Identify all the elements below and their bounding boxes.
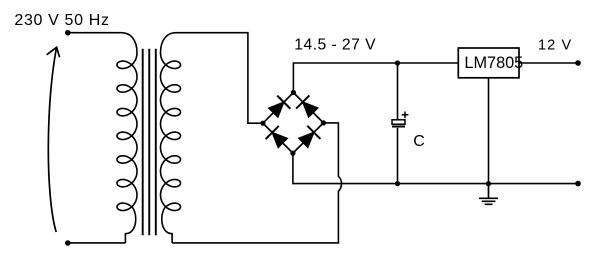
- wire: primary top from terminal to transformer: [67, 32, 122, 34]
- wire: capacitor negative lead: [397, 128, 399, 184]
- bridge rectifier edge: diode D4 branch (- bottom to AC right): [293, 123, 324, 153]
- bridge rectifier edge: diode D2 branch (AC right to + top): [293, 93, 323, 123]
- terminal: mains neutral (bottom left): [65, 240, 71, 246]
- bridge rectifier edge: diode D1 branch (AC left to + top): [263, 93, 294, 124]
- wire: bridge + output up and positive rail to regulator input: [293, 63, 458, 93]
- wire: bridge - output down and negative rail with hop over AC wire: [293, 153, 578, 184]
- transformer TR1 core: [143, 49, 156, 235]
- wire: secondary top to bridge AC node (left): [176, 33, 263, 124]
- diode D2 triangle and cathode bar: [303, 102, 318, 117]
- wire: secondary bottom to bridge AC node (right), crosses under negative rail: [172, 123, 341, 243]
- svg-text:230 V 50 Hz: 230 V 50 Hz: [14, 12, 109, 29]
- svg-text:14.5 - 27 V: 14.5 - 27 V: [294, 37, 376, 54]
- transformer TR1 primary winding: [117, 33, 137, 243]
- wire: regulator output to +12V terminal: [519, 62, 578, 64]
- transformer TR1 secondary winding: [161, 33, 181, 243]
- node: bridge + (top): [291, 90, 296, 95]
- terminal: mains phase (top left): [65, 30, 71, 36]
- node: bridge AC left: [260, 121, 265, 126]
- terminal: +12V output: [575, 60, 581, 66]
- wire: capacitor positive lead: [397, 63, 399, 120]
- junction: regulator ground on negative rail: [486, 181, 491, 186]
- capacitor C negative plate: [392, 126, 405, 128]
- capacitor C positive plate: [392, 120, 405, 124]
- diode D3 triangle and cathode bar: [272, 133, 287, 148]
- node: bridge AC right: [321, 120, 326, 125]
- ground symbol: [479, 184, 498, 205]
- bridge rectifier edge: diode D3 branch (- bottom to AC left): [263, 123, 293, 153]
- wire: regulator ground pin down to negative rail: [488, 78, 490, 184]
- terminal: 0V output: [575, 181, 581, 187]
- wire: primary bottom from transformer to terminal: [68, 242, 126, 244]
- svg-text:C: C: [413, 133, 425, 150]
- svg-text:LM7805: LM7805: [464, 54, 523, 72]
- node: bridge - (bottom): [290, 151, 295, 156]
- diode D4 triangle and cathode bar: [299, 132, 314, 147]
- capacitor C polarity plus sign: [402, 112, 409, 119]
- AC source arrow (mains indicator): [48, 49, 56, 233]
- junction: capacitor + on positive rail: [395, 60, 400, 65]
- svg-text:12 V: 12 V: [538, 37, 572, 53]
- diode D1 triangle and cathode bar: [269, 102, 284, 117]
- junction: capacitor - on negative rail: [395, 181, 400, 186]
- regulator U1 LM7805 body: [458, 48, 519, 78]
